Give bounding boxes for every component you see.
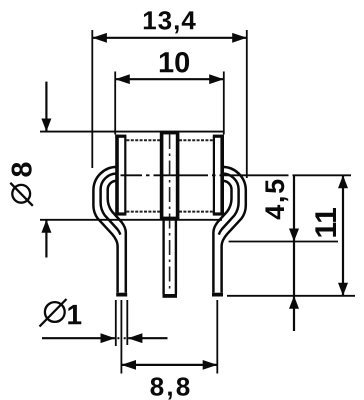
label text 8,8: [151, 377, 190, 399]
left lead end: [116, 293, 127, 297]
wire: 13,4 left extension line: [91, 30, 93, 168]
middle electrode band: [162, 133, 178, 219]
wire: d8 dimension line bottom tail: [45, 220, 47, 258]
arrowhead 13,4 right: [232, 33, 247, 43]
label text 10: [160, 52, 189, 73]
label d1 diameter symbol slash: [40, 299, 67, 327]
arrowhead d8 bottom: [41, 220, 51, 233]
right lead: [212, 167, 246, 295]
vertical center line of middle electrode: [169, 134, 171, 289]
wire: right lead outer curve: [222, 167, 246, 293]
label text 8 of d8: [12, 163, 32, 177]
wire: d8 top extension line: [40, 131, 224, 133]
wire: 10 dimension line: [115, 78, 224, 80]
label text 1 of d1: [68, 305, 81, 324]
wire: 4,5 bend extension line: [229, 241, 338, 243]
arrowhead d1 right: [128, 333, 143, 343]
arrowhead 8,8 left: [121, 360, 136, 370]
arrowhead 11 top: [338, 175, 348, 188]
component ceramic body top edge: [126, 139, 160, 141]
label d8 diameter symbol slash: [10, 183, 33, 206]
label text 13,4: [144, 11, 196, 33]
wire: 11 dimension line: [342, 175, 344, 295]
label d8 diameter symbol circle: [12, 185, 30, 203]
dimension 10: [115, 52, 224, 135]
wire: 10 left extension line: [114, 72, 116, 135]
dimension 11 right: [227, 175, 355, 295]
dimension diameter 8 left: [10, 82, 224, 258]
dimension diameter 1 bottom left: [40, 299, 168, 346]
arrowhead d1 left: [101, 333, 116, 343]
wire: d1 dimension line dots between extension lines: [117, 337, 119, 339]
arrowhead 10 right: [209, 74, 224, 84]
label diameter-8: [10, 163, 33, 206]
label d1 diameter symbol circle: [45, 302, 65, 322]
wire: 10 right extension line: [223, 72, 225, 135]
wire: 13,4 dimension line: [92, 37, 247, 39]
wire: 8,8 dimension line: [121, 364, 217, 366]
wire: 4,5 dimension line: [293, 175, 295, 331]
component ceramic body bottom edge: [126, 211, 160, 213]
label diameter-1: [40, 299, 82, 327]
arrowhead 8,8 right: [203, 360, 218, 370]
wire: right lead middle curve: [219, 174, 239, 235]
wire: 8,8 left extension line: [120, 300, 122, 374]
wire: left lead middle curve: [101, 174, 121, 235]
label text 11: [315, 208, 336, 237]
dimension 13,4 top: [92, 11, 247, 178]
wire: left lead inner curve: [108, 181, 126, 293]
wire: 13,4 right extension line: [246, 30, 248, 178]
wire: right lead inner curve: [213, 181, 231, 293]
wire: d8 bottom extension line: [40, 219, 222, 221]
wire: d1 left extension line: [115, 300, 117, 346]
left lead: [93, 167, 127, 295]
wire: left lead outer curve: [93, 167, 117, 293]
horizontal center axis line: [121, 174, 352, 176]
wire: d1 dimension line left part: [42, 337, 115, 339]
right lead end: [212, 293, 223, 297]
label text 4,5: [265, 180, 288, 220]
wire: lead end extension line: [227, 295, 355, 297]
arrowhead 4,5 top: [289, 229, 299, 242]
dimension 4,5 right: [229, 175, 338, 331]
dimension 8,8 bottom: [121, 300, 217, 400]
arrowhead 10 left: [115, 74, 130, 84]
wire: d1 dimension line right part: [128, 337, 167, 339]
wire: d8 dimension line top tail: [45, 82, 47, 132]
wire: 8,8 right extension line: [216, 300, 218, 374]
middle lead: [163, 220, 178, 296]
left end cap: [115, 135, 126, 216]
arrowhead d8 top: [41, 119, 51, 132]
wire: d1 right extension line: [126, 300, 128, 345]
right end cap: [213, 135, 224, 216]
arrowhead 13,4 left: [92, 33, 107, 43]
arrowhead 4,5 bottom: [289, 296, 299, 309]
arrowhead 11 bottom: [338, 283, 348, 296]
